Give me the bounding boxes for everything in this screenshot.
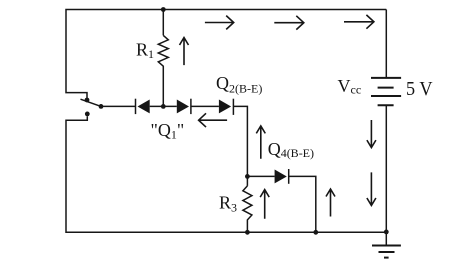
svg-text:"Q1": "Q1" xyxy=(151,120,185,142)
svg-text:5 V: 5 V xyxy=(406,78,433,100)
